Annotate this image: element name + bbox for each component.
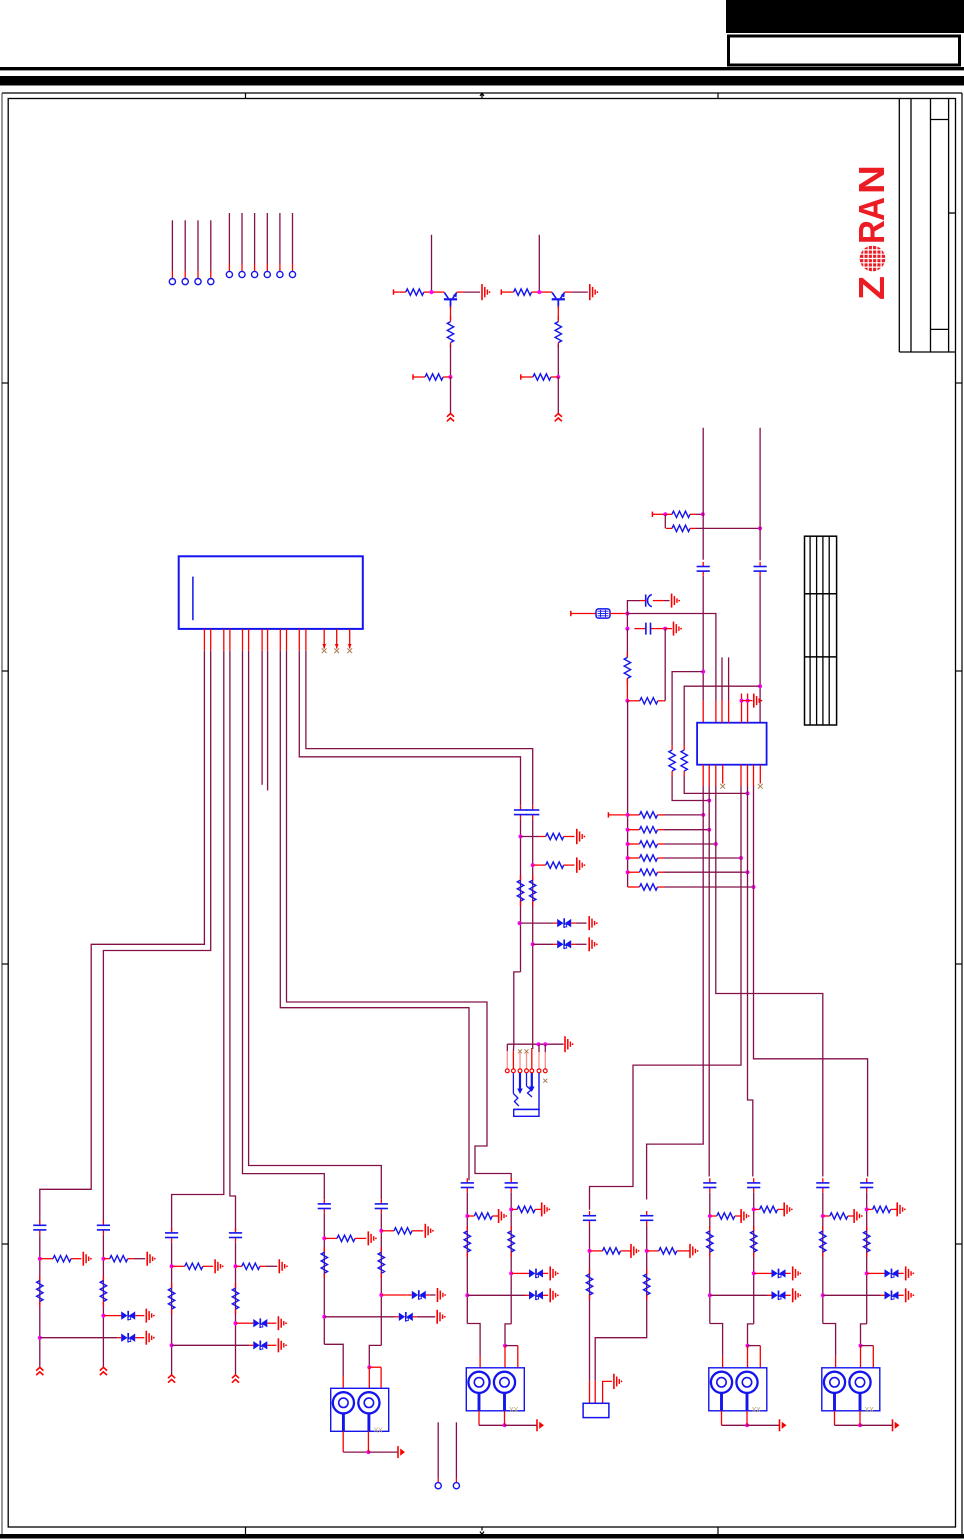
mid left rail lower bbox=[514, 972, 521, 1044]
block G diode row 1 bbox=[867, 1266, 914, 1280]
block G left rail bbox=[821, 1192, 825, 1323]
headphone pin circles bbox=[505, 1069, 547, 1073]
wire p10 to block D right bbox=[287, 651, 512, 1180]
block D capacitor R bbox=[505, 1178, 518, 1192]
net v2 wire bbox=[708, 786, 710, 1177]
mid diode row 1 bbox=[520, 916, 598, 930]
connector pins group 1 bbox=[169, 220, 214, 284]
block F vertical resistor R bbox=[751, 1226, 757, 1257]
connector pins group 2 bbox=[226, 213, 295, 278]
net v1 wire bbox=[647, 786, 704, 1200]
block G diode row 2 bbox=[823, 1288, 914, 1302]
wire p2 to block A right bbox=[103, 651, 210, 1223]
block C diode row 1 bbox=[381, 1288, 446, 1302]
page top bar bbox=[0, 76, 964, 86]
block D vertical resistor L bbox=[464, 1226, 470, 1257]
block B diode row 1 bbox=[236, 1316, 287, 1330]
block A diode row 1 bbox=[103, 1309, 154, 1323]
block B right rail bbox=[234, 1242, 238, 1374]
revision table bbox=[805, 536, 837, 725]
U2 top stub pins bbox=[722, 657, 729, 722]
block G right jog to jack bbox=[859, 1324, 874, 1368]
block C resistor row L bbox=[324, 1231, 377, 1245]
block E right rail bbox=[595, 1225, 649, 1403]
block C resistor row R bbox=[381, 1224, 434, 1238]
block G left jog to jack bbox=[823, 1324, 836, 1368]
ladder left rail bbox=[608, 701, 627, 887]
title table (rotated) bbox=[899, 99, 955, 353]
svg-text:xx: xx bbox=[865, 1404, 875, 1414]
U2 bottom pins bbox=[703, 765, 763, 789]
block D vertical resistor R bbox=[508, 1226, 514, 1257]
svg-text:Z: Z bbox=[851, 276, 892, 300]
net v6 wire bbox=[754, 786, 868, 1177]
block B resistor row L bbox=[172, 1259, 224, 1273]
IC U1 (large box) bbox=[179, 556, 363, 629]
wire p1 to block A left bbox=[40, 651, 205, 1223]
wire p8 stub bbox=[267, 651, 269, 791]
block A vertical resistor R bbox=[100, 1276, 106, 1307]
rail B lower bbox=[758, 576, 762, 723]
wire p4 to block B right bbox=[230, 651, 236, 1231]
capacitor C (lower) w/ ground bbox=[625, 614, 682, 636]
title block top-right black box bbox=[726, 0, 964, 33]
block A capacitor R bbox=[97, 1221, 110, 1235]
bottom connector pins bbox=[435, 1422, 459, 1488]
block E connector bbox=[583, 1403, 609, 1417]
svg-text:R: R bbox=[851, 220, 892, 244]
block A resistor row L bbox=[40, 1252, 92, 1266]
block D capacitor L bbox=[461, 1178, 474, 1192]
resistor R (U2 left) w/ wires bbox=[669, 672, 711, 803]
block F left jog to jack bbox=[710, 1324, 723, 1368]
block C right rail bbox=[379, 1213, 383, 1345]
block A diode row 2 bbox=[40, 1331, 155, 1345]
svg-text:xx: xx bbox=[752, 1404, 762, 1414]
block G resistor row R bbox=[867, 1202, 906, 1216]
block D diode row 1 bbox=[511, 1266, 558, 1280]
resistor R (U2 right) w/ wires bbox=[681, 686, 760, 795]
U2 power pins w/ ground bbox=[740, 694, 763, 723]
block A resistor row R bbox=[103, 1252, 155, 1266]
block C left jog to jack bbox=[324, 1344, 343, 1388]
ladder resistor row 6 bbox=[628, 884, 756, 890]
headphone ground bus bbox=[507, 1036, 573, 1052]
wire p3 to block B left bbox=[172, 651, 224, 1231]
block B chevron L bbox=[168, 1375, 175, 1383]
wire p7 stub bbox=[261, 651, 263, 785]
transistor cell Q2 bbox=[501, 235, 598, 421]
block G capacitor R bbox=[860, 1178, 873, 1192]
block A vertical resistor L bbox=[37, 1276, 43, 1307]
svg-text:xx: xx bbox=[509, 1404, 519, 1414]
block F right rail bbox=[752, 1192, 756, 1324]
block F left rail bbox=[708, 1192, 712, 1323]
block C RCA jack bbox=[331, 1388, 389, 1434]
rail wire B bbox=[759, 428, 761, 561]
block C vertical resistor R bbox=[378, 1247, 384, 1278]
net v3 wire bbox=[716, 786, 823, 1177]
block D resistor row R bbox=[511, 1202, 550, 1216]
block D right jog to jack bbox=[503, 1324, 518, 1368]
block B left rail bbox=[170, 1242, 174, 1374]
block F diode row 2 bbox=[710, 1288, 801, 1302]
U1 bottom pins bbox=[204, 629, 306, 651]
block D jack ground wires bbox=[479, 1411, 544, 1432]
wire p5 to block C left bbox=[243, 651, 325, 1199]
block F resistor row L bbox=[710, 1209, 750, 1223]
page top rule bbox=[0, 67, 964, 70]
mid block left rail bbox=[518, 819, 523, 972]
svg-text:N: N bbox=[851, 165, 892, 194]
capacitor on rail B bbox=[754, 562, 767, 576]
net v5 wire bbox=[748, 786, 753, 1177]
block E resistor row L bbox=[590, 1244, 640, 1258]
block F resistor row R bbox=[754, 1202, 793, 1216]
headphone pin stubs bbox=[507, 1044, 545, 1068]
block G vertical resistor R bbox=[864, 1226, 870, 1257]
block G RCA jack bbox=[822, 1368, 880, 1414]
block F diode row 1 bbox=[754, 1266, 801, 1280]
block F vertical resistor L bbox=[707, 1226, 713, 1257]
IC U2 (small box) bbox=[697, 723, 767, 765]
rail A lower bbox=[701, 576, 705, 701]
block A right rail bbox=[101, 1235, 105, 1367]
ZORAN logo bbox=[851, 165, 892, 300]
block G vertical resistor L bbox=[820, 1226, 826, 1257]
block B diode row 2 bbox=[172, 1338, 287, 1352]
block D diode row 2 bbox=[467, 1288, 558, 1302]
capacitor C (top, polarized) w/ ground bbox=[627, 594, 680, 614]
resistor (feedback) bbox=[627, 629, 665, 704]
ladder resistor row 4 bbox=[626, 855, 743, 861]
block A capacitor L bbox=[33, 1221, 46, 1235]
block E capacitor R bbox=[640, 1211, 653, 1225]
headphone switch contacts bbox=[513, 1073, 547, 1116]
block D resistor row L bbox=[467, 1209, 507, 1223]
wire p9 to block D left bbox=[280, 651, 469, 1180]
wire p6 to block C right bbox=[249, 651, 382, 1199]
resistor (vertical, crystal bias) bbox=[624, 629, 630, 703]
block C capacitor R bbox=[375, 1199, 388, 1213]
svg-text:xx: xx bbox=[374, 1424, 384, 1434]
U1 no-connect pins bbox=[322, 629, 352, 653]
block G capacitor L bbox=[816, 1178, 829, 1192]
wire p11 to mid block left bbox=[299, 651, 520, 806]
mid resistor row 1 bbox=[521, 829, 586, 844]
crystal net to IC bbox=[627, 614, 716, 723]
mid diode row 2 bbox=[533, 937, 598, 951]
block D left rail bbox=[465, 1192, 469, 1323]
block E capacitor L bbox=[583, 1211, 596, 1225]
title block white field bbox=[729, 36, 960, 65]
block E resistor row R bbox=[647, 1244, 699, 1258]
transistor cell Q1 bbox=[394, 235, 491, 421]
ladder resistor row 3 bbox=[626, 841, 718, 847]
block D left jog to jack bbox=[467, 1324, 480, 1368]
mid vertical resistor L bbox=[517, 875, 523, 906]
block B vertical resistor R bbox=[232, 1283, 238, 1314]
block A chevron L bbox=[36, 1367, 43, 1375]
block C vertical resistor L bbox=[321, 1247, 327, 1278]
block B capacitor L bbox=[165, 1228, 178, 1242]
block E vertical resistor L bbox=[586, 1269, 592, 1300]
block G resistor row L bbox=[823, 1209, 863, 1223]
block A left rail bbox=[38, 1235, 42, 1367]
block C right jog to jack bbox=[367, 1345, 381, 1388]
mid block capacitors bbox=[514, 805, 539, 819]
net v4 wire bbox=[590, 786, 742, 1210]
parallel resistor pair (top right) bbox=[652, 511, 762, 532]
block E vertical resistor R bbox=[644, 1269, 650, 1300]
block F capacitor R bbox=[747, 1178, 760, 1192]
rail wire A bbox=[702, 428, 704, 560]
block G right rail bbox=[865, 1192, 869, 1324]
block D RCA jack bbox=[466, 1368, 524, 1414]
block B vertical resistor L bbox=[168, 1283, 174, 1314]
mid resistor row 2 bbox=[533, 857, 586, 872]
ladder resistor row 2 bbox=[626, 827, 712, 833]
block C left rail bbox=[322, 1213, 326, 1344]
block F jack ground wires bbox=[722, 1411, 787, 1432]
capacitor on rail A bbox=[697, 562, 710, 576]
block B resistor row R bbox=[236, 1259, 288, 1273]
block C diode row 2 bbox=[324, 1310, 445, 1324]
block C jack ground wires bbox=[343, 1431, 405, 1458]
ladder resistor row 1 bbox=[626, 812, 706, 818]
ladder resistor row 5 bbox=[626, 869, 750, 875]
block F RCA jack bbox=[709, 1368, 767, 1414]
ferrite bead FB1 bbox=[571, 609, 630, 618]
svg-text:A: A bbox=[851, 197, 892, 221]
block F capacitor L bbox=[703, 1178, 716, 1192]
wire p12 to mid block right bbox=[306, 651, 533, 806]
block B chevron R bbox=[232, 1375, 239, 1383]
block G jack ground wires bbox=[835, 1411, 900, 1432]
mid block right rail bbox=[531, 819, 535, 1049]
block C capacitor L bbox=[318, 1199, 331, 1213]
block E left rail bbox=[588, 1225, 592, 1403]
mid vertical resistor R bbox=[530, 875, 536, 906]
block F right jog to jack bbox=[746, 1324, 761, 1368]
rail A pin stub bbox=[702, 701, 704, 723]
block D right rail bbox=[509, 1192, 513, 1324]
block A chevron R bbox=[100, 1367, 107, 1375]
block E ground pin bbox=[603, 1374, 623, 1404]
block B capacitor R bbox=[229, 1228, 242, 1242]
